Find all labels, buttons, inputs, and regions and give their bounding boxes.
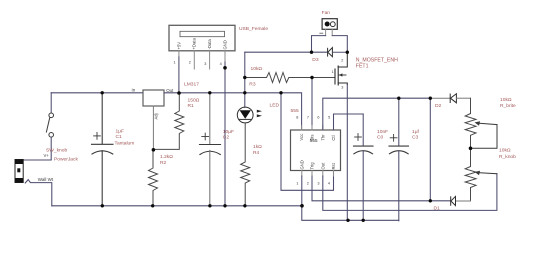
junction: node LM317 adj / R1 / R2 <box>152 148 156 152</box>
svg-text:Wall Wt: Wall Wt <box>38 177 54 182</box>
power jack J1 <box>15 160 23 183</box>
svg-text:555: 555 <box>310 138 318 144</box>
svg-text:R1: R1 <box>188 103 195 109</box>
junction: node thr / D2 link <box>429 97 432 100</box>
svg-text:10kΩ: 10kΩ <box>251 66 263 72</box>
svg-text:Vcc: Vcc <box>299 134 304 141</box>
svg-text:10nF: 10nF <box>377 129 388 135</box>
svg-text:2: 2 <box>307 182 309 186</box>
svg-text:Rst: Rst <box>331 162 336 169</box>
svg-text:5: 5 <box>328 115 330 119</box>
wire vcc pin8 <box>281 93 302 130</box>
svg-text:V+: V+ <box>44 153 50 158</box>
diode D1 <box>451 196 471 205</box>
junction: node C3 top <box>397 97 400 100</box>
svg-text:1: 1 <box>332 70 334 74</box>
junction: node C1 top / V-in rail <box>101 91 104 94</box>
555 pin names <box>296 115 336 185</box>
switch SW_knob <box>46 113 53 137</box>
junction: node C2 bottom / gnd rail <box>208 204 211 207</box>
wire switch to jack <box>23 137 51 160</box>
svg-text:8: 8 <box>296 115 298 119</box>
svg-text:PowerJack: PowerJack <box>54 156 78 162</box>
svg-text:C0: C0 <box>377 135 384 141</box>
regulator U2 LM317 <box>143 90 164 106</box>
diode D2 <box>430 94 470 103</box>
wire fan right pin <box>332 36 347 53</box>
wire fan left pin <box>312 36 326 53</box>
svg-text:2: 2 <box>189 61 191 65</box>
svg-text:6: 6 <box>317 115 319 119</box>
svg-text:D1: D1 <box>434 206 441 212</box>
LED D4 <box>237 107 262 123</box>
diode D3 <box>328 48 348 57</box>
svg-text:D2: D2 <box>435 103 442 109</box>
svg-text:555: 555 <box>291 108 299 114</box>
wire gnd pin1 loop <box>302 176 399 220</box>
wire FET source column <box>346 85 348 221</box>
junction: node gate / pin7 <box>310 76 313 79</box>
svg-text:Out: Out <box>166 88 174 93</box>
svg-text:10μF: 10μF <box>223 129 234 135</box>
capacitor C1 <box>92 93 114 206</box>
wire trig pin2 row <box>312 176 450 201</box>
capacitor C2 <box>200 93 221 206</box>
junction: node Vcc branch <box>279 91 282 94</box>
junction: node R_brite bottom / R_knob top <box>469 147 473 151</box>
resistor R2 <box>149 150 158 206</box>
junction: node fan left / D3 anode <box>310 51 313 54</box>
svg-text:1.2kΩ: 1.2kΩ <box>160 154 173 160</box>
svg-text:4: 4 <box>328 182 330 186</box>
wire out pin3 row <box>323 174 497 211</box>
svg-text:2: 2 <box>341 58 343 62</box>
junction: node USB +5V / LM317 out <box>177 91 181 95</box>
svg-text:+Data: +Data <box>192 38 197 50</box>
svg-text:D3: D3 <box>312 57 319 63</box>
svg-text:Ctl: Ctl <box>331 135 336 140</box>
junction: node USB GND / gnd rail <box>223 204 226 207</box>
junction: node trig / D1 link <box>429 199 432 202</box>
svg-text:R_knob: R_knob <box>499 154 516 160</box>
svg-text:4: 4 <box>220 62 222 66</box>
svg-text:3: 3 <box>204 62 206 66</box>
timer U1 555 <box>291 126 341 177</box>
FET pin numbers <box>332 58 344 89</box>
svg-text:1kΩ: 1kΩ <box>253 144 262 150</box>
svg-text:3: 3 <box>341 86 343 90</box>
svg-text:1: 1 <box>296 182 298 186</box>
fan M1 <box>320 19 338 36</box>
svg-text:1μf: 1μf <box>412 129 420 135</box>
svg-text:10kΩ: 10kΩ <box>500 97 512 103</box>
svg-text:7: 7 <box>307 115 309 119</box>
wire LED column upper <box>244 52 246 107</box>
svg-text:GND: GND <box>299 160 304 169</box>
svg-text:R4: R4 <box>253 150 260 156</box>
svg-text:LM317: LM317 <box>184 81 199 87</box>
wire USB GND down <box>224 62 226 206</box>
resistor R3 <box>245 73 335 83</box>
svg-text:R2: R2 <box>160 160 167 166</box>
svg-text:-Data: -Data <box>207 39 212 50</box>
svg-text:SW_knob: SW_knob <box>46 148 67 154</box>
junction: node FET source / gnd <box>346 219 349 222</box>
junction: node LED column / out rail <box>243 91 246 94</box>
svg-text:R_brite: R_brite <box>500 103 516 109</box>
wire wall-wart squiggle to ground drop <box>25 180 52 206</box>
wire LM317 out <box>164 92 281 94</box>
svg-text:10kΩ: 10kΩ <box>499 148 511 154</box>
junction: node C1 bottom / gnd rail <box>101 204 104 207</box>
wire USB +5V to out rail <box>178 57 180 93</box>
svg-text:Adj: Adj <box>154 113 159 119</box>
connector J2 USB_Female <box>169 25 235 69</box>
wire thr pin6 row <box>323 98 431 130</box>
junction: node R4 bottom / gnd rail <box>243 204 246 207</box>
svg-text:3: 3 <box>317 182 319 186</box>
svg-text:1μF: 1μF <box>116 128 125 134</box>
svg-text:C3: C3 <box>412 135 419 141</box>
junction: node C0 bottom / gnd <box>362 219 365 222</box>
capacitor C3 <box>389 98 409 221</box>
svg-text:Fan: Fan <box>322 10 331 16</box>
wire top-left rail <box>51 92 143 94</box>
wire reset column <box>281 93 334 191</box>
resistor R1 <box>153 93 183 149</box>
junction: node fan right / D3 cathode / drain <box>346 51 349 54</box>
potentiometer R_knob <box>465 148 497 201</box>
USB pin names <box>174 38 228 66</box>
svg-text:Trig: Trig <box>310 162 315 170</box>
resistor R4 <box>241 123 250 206</box>
wire LM317 adj pin <box>152 106 154 150</box>
wire bottom rail <box>52 205 302 207</box>
svg-text:150Ω: 150Ω <box>188 97 200 103</box>
svg-text:1: 1 <box>174 61 176 65</box>
junction: node 555 GND pin1 / gnd rail <box>300 204 304 208</box>
svg-text:+5V: +5V <box>176 42 181 50</box>
svg-text:R3: R3 <box>249 81 256 87</box>
svg-text:In: In <box>132 87 136 92</box>
wire ctl pin5 row <box>334 114 364 130</box>
wire switch top drop <box>50 93 52 113</box>
svg-text:LED: LED <box>270 103 280 109</box>
svg-text:FET1: FET1 <box>356 63 369 69</box>
wire dis pin7 to gate row <box>311 78 313 131</box>
junction: node USB GND pin <box>223 66 227 70</box>
junction: node R3 left <box>243 76 246 79</box>
capacitor C0 <box>354 114 374 221</box>
junction: node C2 top <box>208 91 211 94</box>
svg-text:GND: GND <box>222 40 227 49</box>
transistor Q1 N-MOSFET FET1 <box>335 52 347 85</box>
svg-text:C1: C1 <box>116 134 123 140</box>
junction: node R2 bottom / gnd rail <box>151 204 154 207</box>
wire D3 row from LED column <box>245 51 327 53</box>
potentiometer R_brite <box>465 98 497 148</box>
svg-text:C2: C2 <box>223 135 230 141</box>
svg-text:Thr: Thr <box>320 134 325 141</box>
svg-text:Out: Out <box>320 162 325 170</box>
svg-text:USB_Female: USB_Female <box>239 26 268 32</box>
wire trig link column <box>429 98 431 201</box>
svg-text:Tantalum: Tantalum <box>115 140 135 146</box>
